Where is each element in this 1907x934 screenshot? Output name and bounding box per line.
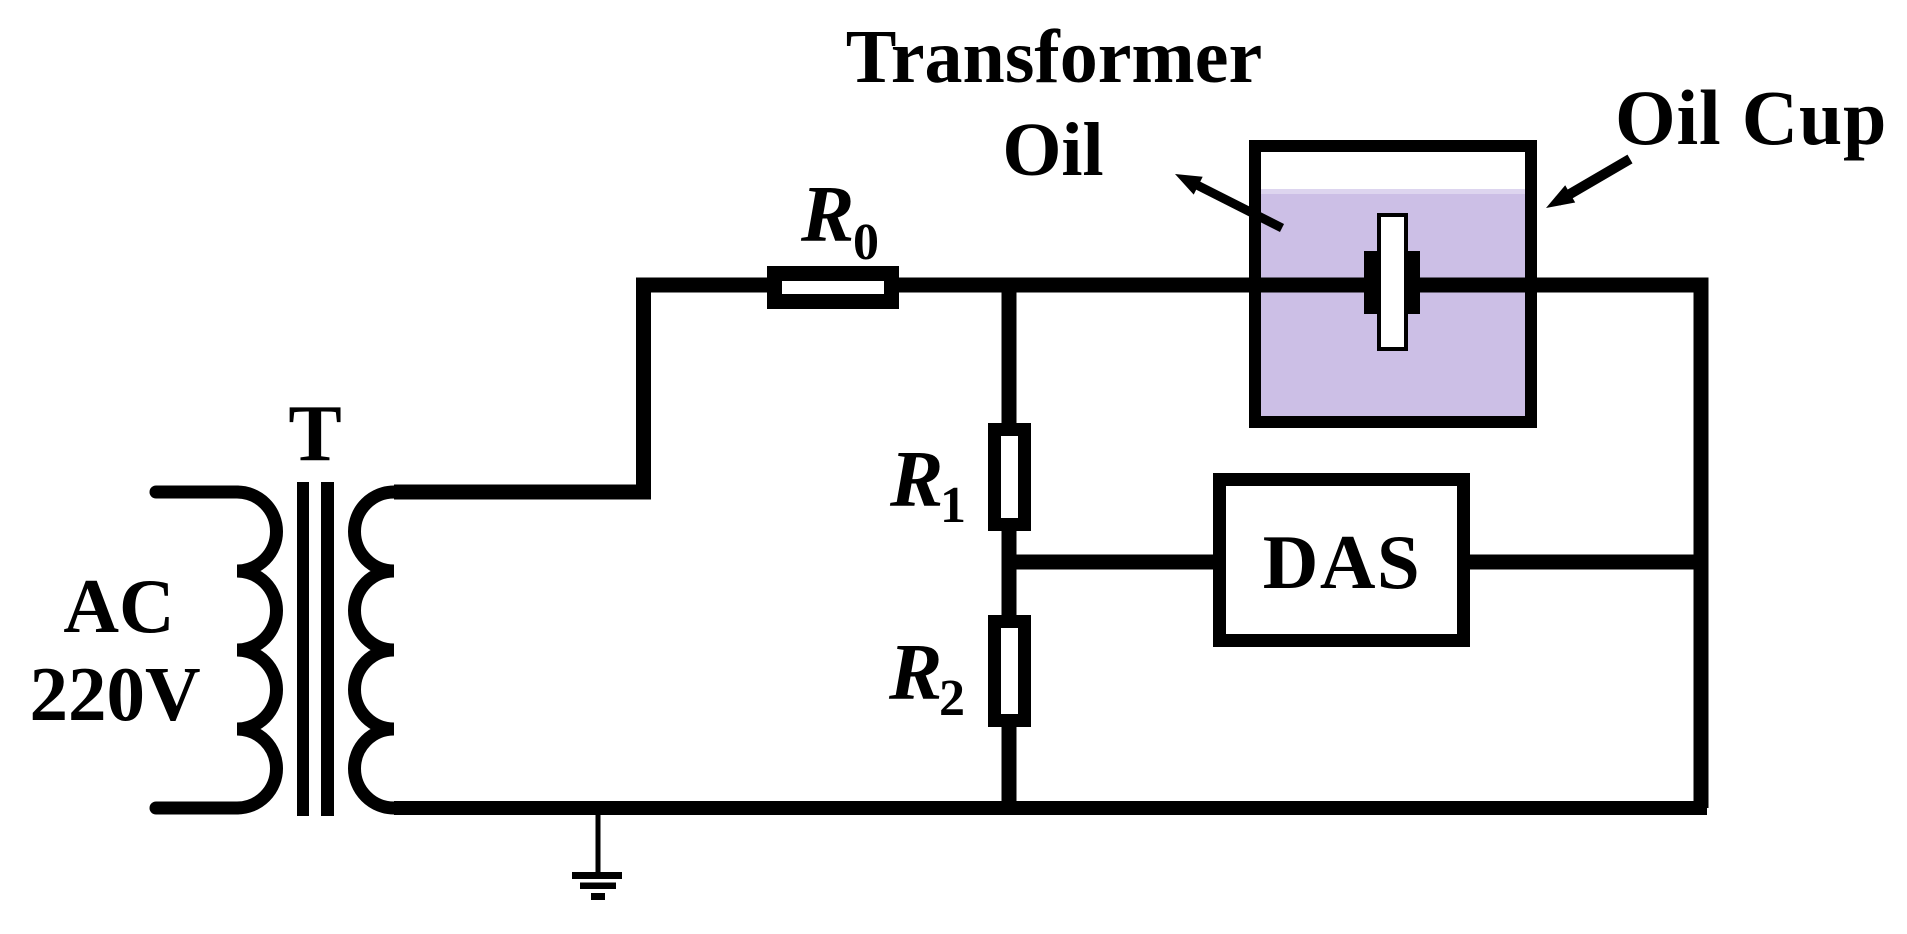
svg-text:Transformer: Transformer	[846, 15, 1262, 99]
electrode blocks in oil cup	[1364, 251, 1420, 314]
arrow to Transformer Oil label	[1175, 174, 1282, 228]
wire: AC source top lead (left winding)	[156, 486, 237, 499]
svg-text:220V: 220V	[29, 651, 200, 737]
wire: DAS right wire to right bus	[1463, 555, 1701, 570]
wire: bottom bus from secondary bottom lead to right bus	[394, 801, 1707, 815]
wire: below R2 to bottom bus	[1002, 724, 1017, 808]
svg-text:R: R	[888, 629, 942, 717]
wire: between R1 and R2	[1002, 528, 1017, 618]
ground	[572, 812, 622, 900]
wire: main top wire from R0 to right bus, right bus down	[896, 285, 1701, 808]
svg-text:Oil Cup: Oil Cup	[1615, 74, 1887, 161]
resistor R2	[995, 622, 1025, 721]
electrode gap plate	[1379, 215, 1406, 349]
oil cup outline	[1255, 146, 1531, 422]
wire: AC source bottom lead (left winding)	[156, 802, 237, 815]
wire: secondary top lead to riser and up to R0	[394, 285, 770, 492]
svg-text:T: T	[288, 390, 341, 478]
DAS box U1	[1220, 480, 1464, 641]
svg-text:0: 0	[853, 214, 879, 271]
svg-text:2: 2	[939, 670, 965, 727]
svg-text:R: R	[889, 436, 943, 524]
oil cup purple fill (transformer oil)	[1261, 189, 1525, 416]
resistor R1	[995, 430, 1025, 525]
svg-text:DAS: DAS	[1263, 519, 1422, 605]
svg-text:R: R	[800, 171, 854, 259]
transformer T primary winding	[237, 492, 277, 808]
node: junction divider top	[1002, 285, 1017, 426]
transformer T core bars	[297, 482, 334, 816]
resistor R0	[775, 274, 892, 302]
transformer T secondary winding	[355, 492, 395, 808]
svg-text:Oil: Oil	[1002, 108, 1103, 192]
arrow to Oil Cup label	[1546, 159, 1630, 208]
svg-text:1: 1	[940, 477, 966, 534]
wire: DAS left wire from divider node	[1009, 555, 1220, 570]
svg-text:AC: AC	[63, 563, 174, 649]
